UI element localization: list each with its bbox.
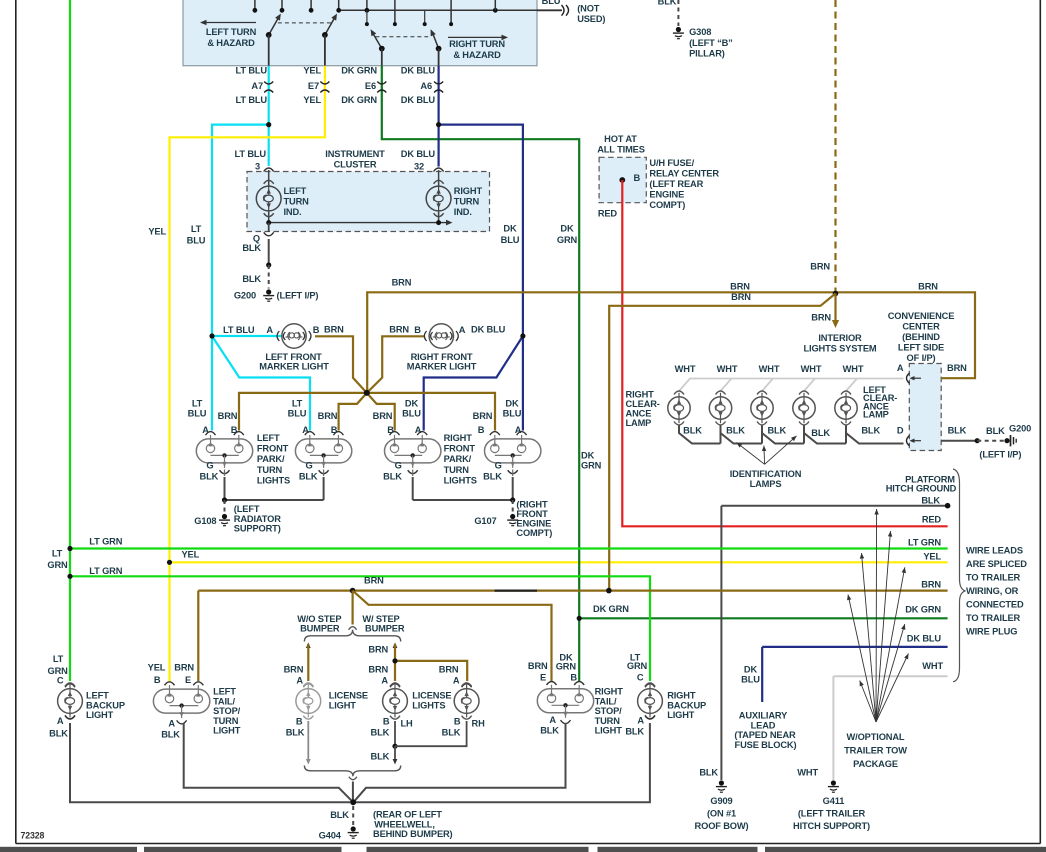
svg-text:A: A [202,425,209,435]
svg-text:G200: G200 [234,291,256,301]
svg-text:BRN: BRN [439,665,459,675]
svg-text:A7: A7 [251,81,263,91]
svg-text:BRN: BRN [318,411,338,421]
svg-text:BLK: BLK [242,274,261,284]
svg-text:LAMP: LAMP [626,418,652,428]
svg-text:RIGHT: RIGHT [454,186,483,196]
svg-text:BUMPER: BUMPER [365,624,405,634]
svg-text:A: A [453,676,460,686]
svg-text:A: A [637,716,644,726]
svg-text:DK BLU: DK BLU [471,325,506,335]
svg-text:CONNECTED: CONNECTED [966,600,1024,610]
svg-text:LEFT: LEFT [284,186,307,196]
svg-text:IDENTIFICATION: IDENTIFICATION [730,469,802,479]
svg-text:LIGHT: LIGHT [86,710,114,720]
svg-text:B: B [231,425,238,435]
svg-text:(LEFT I/P): (LEFT I/P) [979,450,1021,460]
svg-text:E: E [540,673,546,683]
svg-text:DK GRN: DK GRN [905,605,941,615]
svg-text:IND.: IND. [454,207,472,217]
svg-text:BRN: BRN [811,313,831,323]
svg-text:A: A [266,325,273,335]
svg-text:RIGHT: RIGHT [626,390,655,400]
svg-text:LEFT SIDE: LEFT SIDE [898,343,944,353]
svg-text:(LEFT I/P): (LEFT I/P) [277,291,319,301]
svg-text:YEL: YEL [303,95,321,105]
svg-text:BRN: BRN [324,325,344,335]
svg-text:A: A [415,425,422,435]
svg-text:A: A [168,719,175,729]
svg-text:BLK: BLK [299,472,318,482]
svg-text:TURN: TURN [454,197,480,207]
svg-text:C: C [637,673,644,683]
svg-text:GRN: GRN [556,662,577,672]
svg-text:RIGHT: RIGHT [444,433,473,443]
svg-text:RED: RED [598,209,618,219]
svg-text:G200: G200 [1009,424,1031,434]
svg-text:BLU: BLU [288,409,307,419]
svg-text:DK GRN: DK GRN [341,66,377,76]
svg-text:DK BLU: DK BLU [401,95,436,105]
svg-text:LAMP: LAMP [863,410,889,420]
svg-text:TAIL/: TAIL/ [213,696,235,706]
svg-text:OF I/P): OF I/P) [907,353,936,363]
svg-text:LIGHTS: LIGHTS [444,475,477,485]
svg-text:DK GRN: DK GRN [593,604,629,614]
svg-text:WHT: WHT [922,661,943,671]
svg-text:TRAILER TOW: TRAILER TOW [844,746,907,756]
svg-text:G: G [306,461,313,471]
svg-text:GRN: GRN [581,461,602,471]
svg-text:LT: LT [53,654,64,664]
svg-text:32: 32 [414,162,424,172]
svg-text:STOP/: STOP/ [213,706,241,716]
svg-text:G404: G404 [319,831,342,841]
svg-text:A6: A6 [420,81,432,91]
svg-text:DK GRN: DK GRN [341,95,377,105]
svg-text:DK: DK [581,451,595,461]
svg-text:(LEFT: (LEFT [234,504,260,514]
svg-text:TURN: TURN [284,197,310,207]
svg-text:BRN: BRN [392,278,412,288]
svg-text:(REAR OF LEFT: (REAR OF LEFT [373,810,442,820]
svg-text:(LEFT “B”: (LEFT “B” [689,38,733,48]
svg-text:YEL: YEL [148,227,166,237]
svg-text:BRN: BRN [284,665,304,675]
svg-text:(ON #1: (ON #1 [707,809,736,819]
svg-text:GRN: GRN [627,661,648,671]
svg-text:BLU: BLU [503,409,522,419]
svg-text:E: E [185,675,191,685]
svg-text:DK BLU: DK BLU [401,149,436,159]
svg-text:BLU: BLU [187,236,206,246]
svg-text:B: B [478,425,485,435]
svg-text:BLK: BLK [726,426,745,436]
svg-text:DK: DK [505,399,519,409]
svg-text:BUMPER: BUMPER [300,624,340,634]
svg-text:A: A [515,425,522,435]
svg-text:BLK: BLK [986,426,1005,436]
svg-text:U/H FUSE/: U/H FUSE/ [649,158,694,168]
svg-text:A: A [296,676,303,686]
svg-text:LEFT TURN: LEFT TURN [206,27,257,37]
svg-text:LIGHTS: LIGHTS [412,700,445,710]
svg-text:DK BLU: DK BLU [401,66,436,76]
svg-text:BACKUP: BACKUP [667,700,706,710]
svg-text:G: G [206,461,213,471]
svg-text:TURN: TURN [444,465,470,475]
svg-text:GRN: GRN [47,560,68,570]
svg-text:LEFT FRONT: LEFT FRONT [265,352,322,362]
svg-text:LT BLU: LT BLU [236,66,268,76]
svg-text:LICENSE: LICENSE [412,691,451,701]
svg-text:BLK: BLK [242,243,261,253]
svg-text:& HAZARD: & HAZARD [453,50,501,60]
svg-text:WHT: WHT [797,768,818,778]
svg-text:DK: DK [744,664,758,674]
svg-text:RIGHT FRONT: RIGHT FRONT [411,352,473,362]
svg-text:RADIATOR: RADIATOR [234,514,281,524]
svg-text:ENGINE: ENGINE [649,190,684,200]
svg-text:LT BLU: LT BLU [235,149,267,159]
svg-text:TURN: TURN [595,716,621,726]
svg-text:BRN: BRN [918,282,938,292]
svg-text:E7: E7 [308,81,319,91]
svg-text:LEFT: LEFT [86,691,109,701]
svg-text:BRN: BRN [364,576,384,586]
svg-text:WHEELWELL,: WHEELWELL, [374,819,434,829]
svg-text:PARK/: PARK/ [257,454,285,464]
svg-text:YEL: YEL [148,663,166,673]
svg-text:RED: RED [922,515,942,525]
svg-text:BRN: BRN [473,411,493,421]
svg-text:RIGHT: RIGHT [667,691,696,701]
svg-text:W/OPTIONAL: W/OPTIONAL [847,732,905,742]
svg-text:HITCH GROUND: HITCH GROUND [886,484,957,494]
svg-text:LAMPS: LAMPS [750,479,782,489]
svg-text:E6: E6 [365,81,376,91]
svg-text:BRN: BRN [174,663,194,673]
svg-text:BRN: BRN [389,325,409,335]
svg-text:LEFT: LEFT [213,687,236,697]
svg-text:B: B [331,425,338,435]
svg-text:(RIGHT: (RIGHT [516,500,548,510]
svg-text:A: A [302,425,309,435]
svg-text:BRN: BRN [947,363,967,373]
svg-text:LT: LT [192,399,203,409]
svg-text:BRN: BRN [921,580,941,590]
svg-text:RH: RH [472,719,486,729]
svg-text:ALL TIMES: ALL TIMES [597,145,645,155]
svg-text:BLK: BLK [383,472,402,482]
svg-text:MARKER LIGHT: MARKER LIGHT [259,361,329,371]
svg-text:YEL: YEL [182,550,200,560]
svg-text:A: A [549,715,556,725]
svg-text:BRN: BRN [731,292,751,302]
svg-text:IND.: IND. [284,207,302,217]
svg-text:WIRING, OR: WIRING, OR [966,586,1019,596]
svg-text:72328: 72328 [21,831,45,841]
svg-text:LICENSE: LICENSE [329,691,368,701]
svg-text:FRONT: FRONT [516,509,548,519]
svg-text:WHT: WHT [675,364,696,374]
svg-text:DK: DK [405,399,419,409]
svg-text:BLK: BLK [49,729,68,739]
svg-text:TO TRAILER: TO TRAILER [966,573,1021,583]
svg-text:G411: G411 [823,796,845,806]
svg-text:FRONT: FRONT [257,444,289,454]
svg-text:(LEFT TRAILER: (LEFT TRAILER [798,809,866,819]
svg-text:B: B [414,325,421,335]
svg-text:B: B [383,717,390,727]
svg-text:LIGHT: LIGHT [667,710,695,720]
svg-text:TO TRAILER: TO TRAILER [966,613,1021,623]
svg-text:BLK: BLK [540,726,559,736]
svg-text:WHT: WHT [759,364,780,374]
svg-text:CLUSTER: CLUSTER [334,160,377,170]
svg-text:TAIL/: TAIL/ [595,696,617,706]
svg-text:G: G [395,461,402,471]
svg-text:WIRE LEADS: WIRE LEADS [966,546,1023,556]
svg-text:B: B [634,173,641,183]
svg-text:WHT: WHT [801,364,822,374]
svg-text:ENGINE: ENGINE [516,519,551,529]
svg-text:3: 3 [255,162,260,172]
svg-text:W/ STEP: W/ STEP [362,614,399,624]
svg-text:LT: LT [191,224,202,234]
svg-text:A: A [897,363,904,373]
svg-text:Q: Q [253,234,260,244]
svg-text:LT: LT [292,399,303,409]
svg-text:STOP/: STOP/ [595,706,623,716]
svg-text:BRN: BRN [528,661,548,671]
svg-text:YEL: YEL [303,66,321,76]
svg-text:& HAZARD: & HAZARD [207,38,255,48]
svg-text:BLK: BLK [483,472,502,482]
svg-text:DK: DK [503,224,517,234]
svg-text:PACKAGE: PACKAGE [853,759,898,769]
svg-text:LIGHT: LIGHT [213,726,241,736]
svg-text:LEAD: LEAD [751,720,776,730]
svg-text:YEL: YEL [923,551,941,561]
svg-text:WIRE PLUG: WIRE PLUG [966,627,1017,637]
svg-text:BLK: BLK [330,810,349,820]
svg-text:BRN: BRN [810,262,830,272]
svg-text:USED): USED) [577,14,605,24]
svg-text:CENTER: CENTER [902,322,940,332]
svg-text:CONVENIENCE: CONVENIENCE [888,311,955,321]
svg-text:GRN: GRN [557,235,578,245]
svg-text:BLU: BLU [741,675,760,685]
svg-text:BLK: BLK [699,768,718,778]
svg-text:WHT: WHT [843,364,864,374]
svg-text:BLU: BLU [188,409,207,419]
svg-text:BLU: BLU [542,0,561,6]
svg-text:LT GRN: LT GRN [908,538,941,548]
svg-text:G909: G909 [710,796,732,806]
svg-text:LT GRN: LT GRN [89,537,122,547]
svg-text:A: A [57,716,64,726]
svg-text:BEHIND BUMPER): BEHIND BUMPER) [373,829,453,839]
svg-text:G107: G107 [474,516,496,526]
svg-text:BLK: BLK [811,428,830,438]
svg-text:RELAY CENTER: RELAY CENTER [649,169,719,179]
svg-text:INTERIOR: INTERIOR [818,333,862,343]
svg-text:FRONT: FRONT [444,444,476,454]
svg-text:LT BLU: LT BLU [223,325,255,335]
svg-text:BLK: BLK [200,472,219,482]
svg-text:BLK: BLK [683,426,702,436]
svg-text:LT BLU: LT BLU [236,95,268,105]
svg-text:BRN: BRN [730,282,750,292]
svg-text:A: A [381,676,388,686]
svg-text:(NOT: (NOT [577,4,600,14]
svg-text:HOT AT: HOT AT [604,134,637,144]
svg-text:BLK: BLK [371,728,390,738]
svg-text:B: B [313,325,320,335]
svg-text:RIGHT: RIGHT [595,687,624,697]
svg-text:BLK: BLK [371,752,390,762]
svg-text:B: B [454,717,461,727]
svg-text:G308: G308 [689,27,711,37]
svg-text:B: B [154,675,161,685]
svg-text:BRN: BRN [373,411,393,421]
svg-text:AUXILIARY: AUXILIARY [739,711,788,721]
svg-text:BRN: BRN [218,411,238,421]
svg-text:BLK: BLK [767,426,786,436]
svg-text:LT GRN: LT GRN [89,566,122,576]
svg-text:COMPT): COMPT) [649,200,685,210]
svg-text:W/O STEP: W/O STEP [297,614,341,624]
svg-text:BACKUP: BACKUP [86,700,125,710]
svg-text:B: B [296,717,303,727]
svg-text:BRN: BRN [368,665,388,675]
svg-text:B: B [387,425,394,435]
svg-text:(BEHIND: (BEHIND [902,332,940,342]
svg-text:LIGHTS: LIGHTS [257,475,290,485]
svg-text:BLK: BLK [921,495,940,505]
svg-text:INSTRUMENT: INSTRUMENT [325,149,385,159]
svg-text:D: D [897,426,904,436]
svg-text:LT: LT [52,549,63,559]
svg-text:LIGHTS SYSTEM: LIGHTS SYSTEM [804,344,877,354]
svg-text:ROOF BOW): ROOF BOW) [695,821,749,831]
svg-text:RIGHT TURN: RIGHT TURN [449,39,505,49]
svg-text:PILLAR): PILLAR) [689,49,725,59]
svg-text:ANCE: ANCE [626,409,652,419]
svg-text:FUSE BLOCK): FUSE BLOCK) [735,740,797,750]
svg-text:COMPT): COMPT) [516,528,552,538]
svg-text:C: C [57,675,64,685]
svg-text:TURN: TURN [257,465,283,475]
svg-text:WHT: WHT [717,364,738,374]
svg-text:HITCH SUPPORT): HITCH SUPPORT) [793,821,870,831]
svg-text:MARKER LIGHT: MARKER LIGHT [407,361,477,371]
svg-text:B: B [570,673,577,683]
svg-text:LH: LH [401,719,414,729]
svg-text:BLK: BLK [442,728,461,738]
svg-text:SUPPORT): SUPPORT) [234,524,281,534]
svg-text:ARE SPLICED: ARE SPLICED [966,559,1027,569]
svg-text:BLK: BLK [948,426,967,436]
svg-text:PARK/: PARK/ [444,454,472,464]
svg-text:LIGHT: LIGHT [329,700,357,710]
svg-text:BLK: BLK [658,0,677,7]
svg-text:LIGHT: LIGHT [595,726,623,736]
svg-text:BLK: BLK [161,730,180,740]
svg-text:CLEAR-: CLEAR- [626,399,660,409]
svg-text:LEFT: LEFT [257,433,280,443]
svg-text:BLK: BLK [286,728,305,738]
svg-text:G108: G108 [194,516,216,526]
svg-text:DK: DK [560,224,574,234]
svg-text:DK BLU: DK BLU [907,634,942,644]
svg-text:BLK: BLK [625,727,644,737]
svg-text:TURN: TURN [213,716,239,726]
svg-text:BLK: BLK [861,426,880,436]
svg-text:BRN: BRN [368,645,388,655]
svg-text:(TAPED NEAR: (TAPED NEAR [734,730,796,740]
svg-text:(LEFT REAR: (LEFT REAR [649,179,703,189]
svg-text:G: G [495,461,502,471]
svg-text:BLU: BLU [402,409,421,419]
svg-text:BLU: BLU [501,235,520,245]
svg-text:A: A [459,325,466,335]
